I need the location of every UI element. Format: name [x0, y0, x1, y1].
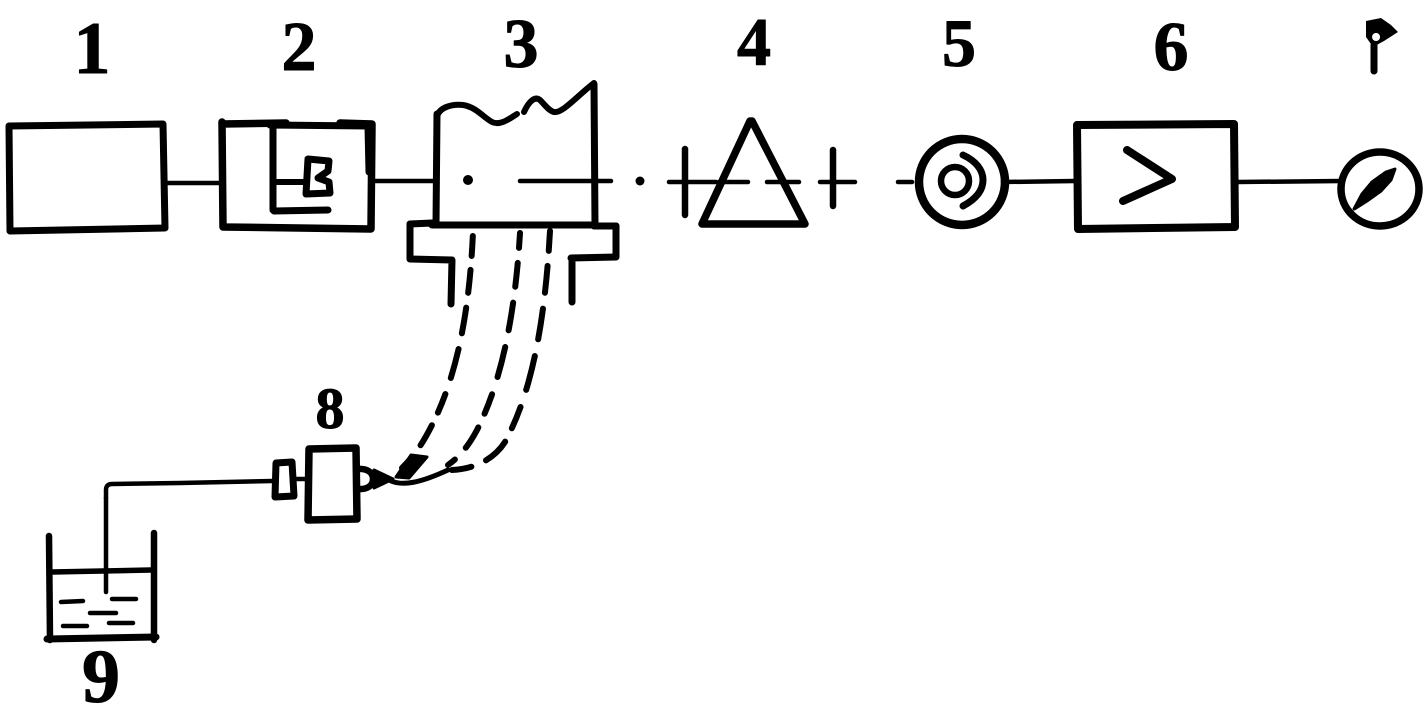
slit (left) vertical — [682, 149, 689, 215]
block 3 flame wavy top — [437, 105, 517, 123]
block 2 inner horizontal lead — [274, 179, 303, 185]
photodetector 5 arc — [963, 155, 983, 206]
block 2 (atomizer unit, outer box) — [222, 122, 372, 229]
block 2 inner box — [270, 125, 369, 211]
wire 2-3 — [373, 179, 434, 184]
optical axis short dash at prism right — [767, 180, 799, 185]
label 7 — [1366, 18, 1398, 71]
nebulizer 8 coupling stub — [294, 477, 308, 482]
svg-text:8: 8 — [316, 376, 345, 441]
optical axis dash inside prism — [719, 180, 748, 185]
block 3 flame chamber left edge — [436, 114, 437, 224]
amplifier 6 box — [1077, 124, 1235, 229]
svg-text:5: 5 — [942, 5, 976, 81]
svg-text:9: 9 — [82, 635, 120, 711]
aerosol dashed curve A — [402, 232, 473, 468]
meter 7 needle — [1354, 169, 1395, 209]
block 3 flame chamber right edge — [594, 84, 595, 225]
beaker 9 water dashes — [61, 599, 136, 626]
nebulizer 8 left coupling — [275, 462, 294, 497]
beaker 9 bottom — [47, 637, 156, 639]
svg-text:1: 1 — [74, 8, 111, 90]
svg-text:3: 3 — [504, 6, 539, 83]
beaker 9 right wall — [151, 533, 158, 640]
aerosol solid tail at nozzle tip — [391, 470, 448, 483]
suction tube horizontal — [106, 481, 272, 498]
amplifier 6 chevron — [1123, 150, 1172, 201]
svg-text:6: 6 — [1154, 9, 1189, 86]
slit (right) axis tick — [820, 180, 855, 185]
nebulizer 8 body — [308, 448, 357, 520]
block 3 interior dot — [463, 175, 473, 185]
meter 7 circle — [1341, 152, 1419, 226]
suction tube vertical — [104, 498, 109, 592]
aerosol dashed curve C — [452, 231, 550, 470]
optical axis dash before slit — [669, 180, 716, 185]
optical axis dash inside block 3 — [520, 179, 611, 184]
aerosol arrowhead — [396, 455, 427, 478]
svg-text:4: 4 — [737, 4, 771, 80]
aerosol dashed curve B — [448, 233, 520, 465]
block 1 (power supply box) — [9, 124, 165, 231]
nebulizer 8 tip cone — [374, 470, 393, 488]
beaker 9 water line — [52, 570, 151, 572]
wire 4-5 dash — [898, 180, 912, 185]
optical axis dot after block 3 — [636, 177, 645, 186]
svg-text:2: 2 — [282, 9, 317, 86]
wire 6-7 — [1238, 181, 1341, 182]
prism 4 triangle — [702, 121, 805, 224]
photodetector 5 inner circle — [941, 167, 969, 195]
nebulizer 8 tip bump — [357, 469, 373, 489]
burner pedestal plate — [410, 223, 616, 304]
block 2 lamp glyph — [306, 159, 330, 194]
photodetector 5 outer circle — [919, 139, 1005, 225]
slit (right) vertical — [830, 150, 837, 206]
wire 1-2 — [165, 181, 219, 186]
beaker 9 left wall — [49, 536, 50, 640]
wire 5-6 — [1003, 181, 1075, 182]
